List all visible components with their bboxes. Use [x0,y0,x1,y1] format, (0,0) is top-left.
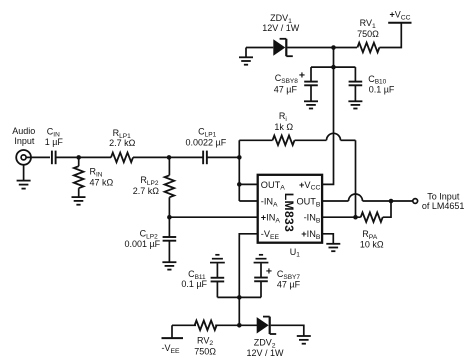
ground [297,335,311,337]
resistor RPA [361,212,383,222]
svg-text:12V / 1W: 12V / 1W [262,23,300,33]
wire OUTB with hop [322,200,348,202]
svg-text:+: + [299,69,305,81]
zener diode ZDV1 [273,39,285,55]
audio input jack [16,150,31,165]
svg-text:+: + [266,265,272,277]
ground [348,100,362,102]
svg-text:2.7 kΩ: 2.7 kΩ [109,138,136,148]
wire +INA [169,216,257,218]
wire +VCC pin [322,48,333,185]
terminal +VCC [388,22,411,24]
node [167,215,172,220]
node [353,215,358,220]
wire [383,201,391,217]
wire [207,156,239,158]
wire [26,156,50,158]
resistor RV2 [195,321,217,331]
node [76,155,81,160]
wire cap rail [311,66,355,68]
svg-text:To Input: To Input [427,192,460,202]
resistor RV1 [357,43,379,53]
capacitor CB10 [354,67,356,82]
terminal -VEE [162,337,184,339]
svg-text:1 µF: 1 µF [45,137,64,147]
terminal output [413,199,418,204]
ground [162,261,176,263]
svg-text:750Ω: 750Ω [194,346,216,356]
wire with hop [295,139,327,141]
wire feedback vertical [355,140,357,217]
ground [23,165,25,181]
wire [133,156,203,158]
capacitor CB11 [216,263,218,278]
wire +INB [322,234,333,244]
wire [287,47,357,49]
resistor Ri [239,139,272,141]
zener diode ZDV2 [257,317,269,333]
capacitor CSBY8 [310,67,312,82]
svg-text:2.7 kΩ: 2.7 kΩ [133,186,160,196]
svg-text:12V / 1W: 12V / 1W [246,348,284,358]
node [331,45,336,50]
node [237,323,242,328]
svg-text:750Ω: 750Ω [357,29,379,39]
capacitor CIN [51,151,53,165]
svg-text:47 kΩ: 47 kΩ [90,178,114,188]
op-amp U1 LM833 [258,175,322,243]
wire [379,23,401,48]
svg-text:of LM4651: of LM4651 [422,201,465,211]
capacitor CSBY7 [260,263,262,277]
ground [72,196,86,198]
svg-text:0.1 µF: 0.1 µF [181,279,207,289]
wire OUTA [239,183,257,185]
svg-text:0.1 µF: 0.1 µF [369,85,395,95]
resistor RLP1 [111,153,133,163]
svg-text:Input: Input [14,136,35,146]
ground [254,262,269,264]
svg-text:LM833: LM833 [282,193,296,232]
ground [326,243,340,245]
capacitor CLP1 [202,151,204,165]
node [237,295,242,300]
wire [271,325,304,336]
svg-text:10 kΩ: 10 kΩ [360,240,384,250]
resistor RLP2 [168,157,170,175]
node [167,155,172,160]
resistor RIN [78,157,80,166]
wire [56,156,111,158]
wire [172,324,196,326]
ground [304,100,318,102]
node [237,182,242,187]
svg-text:Audio: Audio [12,126,35,136]
svg-text:0.0022 µF: 0.0022 µF [186,138,227,148]
wire node A vertical [238,140,240,201]
svg-text:47 µF: 47 µF [274,85,298,95]
wire [215,324,257,326]
svg-text:1k Ω: 1k Ω [274,122,293,132]
ground [245,48,247,58]
wire -VEE pin [239,234,257,325]
wire vee rail [217,296,261,298]
node [237,155,242,160]
capacitor CLP2 [168,217,170,237]
wire [246,47,273,49]
ground [210,262,225,264]
node [331,65,336,70]
svg-text:47 µF: 47 µF [277,280,301,290]
node [389,199,394,204]
wire -INB [322,216,361,218]
wire -INA [239,200,257,202]
svg-text:0.001 µF: 0.001 µF [124,239,160,249]
